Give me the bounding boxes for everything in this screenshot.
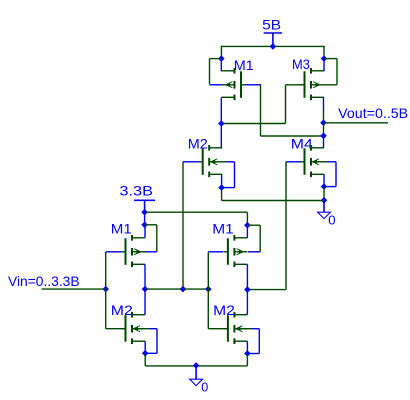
wire Vin gates vertical [105,289,107,329]
wire M2L bulk down [156,329,158,354]
transistor M1 (PMOS input stage left) [121,235,145,267]
wire stage1 out to M2 gate [145,288,183,290]
junction M2 drain node [218,184,225,191]
wire M2L gate right [106,328,126,330]
svg-text:3.3B: 3.3B [119,183,153,199]
wire M2 bulk right blue [226,161,235,163]
wire M2 source up [220,124,222,148]
junction M3 source node [321,55,328,62]
wire M1L bulk loop right [156,225,158,252]
wire M1L bulk loop bottom [145,251,157,253]
wire M3 bulk loop top [324,58,337,60]
wire M4 drain down [323,174,325,186]
wire M1 bulk loop top [210,58,222,60]
svg-text:M2: M2 [111,303,133,318]
wire node A horizontal [221,123,285,125]
svg-text:5B: 5B [262,18,281,33]
svg-text:Vin=0..3.3B: Vin=0..3.3B [8,273,80,289]
junction bottom ground node [193,362,200,369]
wire M1 bulk loop bottom [210,84,222,86]
wire M3 bulk loop right [336,59,338,85]
transistor M1 (PMOS stage 2) [223,235,247,267]
wire M4 bulk to drain node [324,186,336,188]
wire M2M drain down [246,341,248,353]
wire M1L bulk loop top [145,224,157,226]
wire M4 drain to gnd node [323,187,325,201]
junction stage2 input node [205,286,212,293]
transistor M4 (NMOS middle-right) [300,145,324,177]
ground bottom [190,366,203,386]
wire M1L gate down [105,252,107,289]
wire stage1 out to stage2 gates [183,288,208,290]
svg-text:Vout=0..5B: Vout=0..5B [338,105,408,121]
wire 5B rail left drop [220,46,222,59]
wire 3.3B rail [145,211,248,213]
wire M2M gate right [208,328,228,330]
wire M2L bulk right blue [150,328,157,330]
power symbol 5B [264,33,282,46]
wire M2L bulk right green [137,328,150,330]
wire M2L source up [144,289,146,315]
wire ground rail middle [222,200,324,202]
wire M3 drain down green [323,111,325,123]
wire M3 gate down [285,85,287,124]
junction 3.3B stem [141,209,148,216]
wire 5B rail [221,45,324,47]
wire M1 gate right [246,84,261,86]
wire 5B rail right drop [323,46,325,59]
junction M1 mid source node [244,222,251,229]
transistor M2 (NMOS stage 2) [223,312,247,344]
wire M2L bulk to drain node [145,352,157,354]
wire M4 gate down [285,162,287,290]
svg-text:M4: M4 [291,137,314,152]
transistor M1 (PMOS top-left) [222,68,246,100]
junction Vout node [320,120,327,127]
wire node B down to M4 [323,136,325,148]
junction M1 source node [218,55,225,62]
transistor M2 (NMOS middle-left) [198,145,222,177]
junction M4 drain node [321,183,328,190]
wire M4 bulk right blue [327,161,336,163]
wire M2M bulk right blue [252,328,259,330]
wire M1 gate to M3 drain [261,135,324,137]
wire M2 drain to gnd rail [221,188,223,201]
junction node A (M1 drain) [218,120,225,127]
wire M4 bulk down [335,162,337,187]
wire M1L gate left [106,251,121,253]
wire M1M bulk loop top [247,224,260,226]
wire M2L to bottom rail [144,353,146,366]
wire M1 drain down [220,97,222,123]
wire M4 gate to stage2 out [247,289,286,291]
wire M1L source up [144,225,146,238]
wire M1 bulk loop left [209,59,211,85]
wire M4 bulk right green [319,161,328,163]
wire M2M bulk to drain node [247,353,259,355]
junction stage2 output node [244,286,251,293]
junction cross-couple node B [320,133,327,140]
wire M3 drain down blue [323,97,325,111]
svg-text:M2: M2 [188,137,208,152]
svg-text:M1: M1 [111,222,132,237]
wire Vout [324,122,389,124]
wire M3 source up [323,59,325,72]
wire M1 source up [220,59,222,72]
junction ground node right [321,197,328,204]
transistor M2 (NMOS input stage left) [121,312,145,344]
junction stage1 out / M2m gate [180,286,187,293]
wire M1L drain down [144,264,146,289]
wire M2M to bottom rail [246,354,248,366]
wire M2M bulk down [258,329,260,354]
svg-text:M1: M1 [212,222,234,237]
junction M1 left source node [141,222,148,229]
svg-text:0: 0 [328,213,336,228]
svg-text:M3: M3 [292,57,310,72]
junction stage1 output node [142,286,149,293]
wire M1M source up [246,225,248,238]
power symbol 3.3B [134,200,155,212]
wire stage2 gates vertical [207,252,209,329]
svg-text:M2: M2 [213,303,235,318]
junction M2L drain node [142,350,149,357]
svg-text:0: 0 [201,380,208,395]
wire Vin [42,288,106,290]
wire Vout node to cross node [323,123,325,136]
wire 3.3B right drop [246,212,248,225]
wire M2M bulk right green [240,328,253,330]
wire M2 drain down [221,174,223,187]
wire M1M bulk loop bottom [248,251,260,253]
wire M1M gate left [208,251,223,253]
junction 5B stem [270,43,277,50]
ground right [318,200,331,218]
wire M2M source up [246,290,248,315]
wire M2 gate down [182,162,184,289]
wire M1M drain down [246,264,248,289]
wire M2 bulk to drain node [222,187,235,189]
wire M2 gate left [183,161,199,163]
junction Vin node [102,286,109,293]
wire M3 bulk loop bottom [324,84,337,86]
wire 3.3B left drop [144,212,146,225]
wire ground rail bottom [145,365,247,367]
wire M1M bulk loop right [259,225,261,252]
wire M2 bulk right green [221,161,226,163]
wire M4 gate left blue [286,161,300,163]
svg-text:M1: M1 [234,58,254,73]
wire M2 bulk down [234,162,236,188]
transistor M3 (PMOS top-right) [300,68,324,100]
junction M2M drain node [244,350,251,357]
wire M2L drain down [144,341,146,353]
wire M3 gate left [286,84,305,86]
wire M1 gate down [260,84,262,136]
